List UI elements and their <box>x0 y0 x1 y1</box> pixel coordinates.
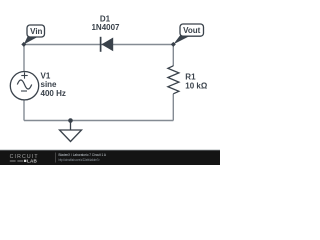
ground <box>60 121 82 142</box>
junction dot ground <box>68 118 73 123</box>
svg-text:1N4007: 1N4007 <box>91 23 120 32</box>
wire left vertical lower <box>23 100 25 120</box>
node Vin anchor <box>21 42 26 47</box>
wire top horizontal <box>24 44 173 46</box>
svg-text:Vout: Vout <box>183 26 201 35</box>
svg-text:10 kΩ: 10 kΩ <box>185 82 208 91</box>
resistor R1 <box>168 66 179 94</box>
svg-text:LAB: LAB <box>27 159 38 164</box>
wire right vertical lower <box>172 94 174 121</box>
wire bottom horizontal <box>24 120 173 122</box>
footer logo LAB row <box>10 159 38 164</box>
svg-text:http://circuitlab.com/c/22abt4: http://circuitlab.com/c/22abt4a/labr7v <box>59 157 100 162</box>
footer bar <box>0 150 220 165</box>
svg-text:sine: sine <box>41 80 58 89</box>
svg-text:Vin: Vin <box>30 27 42 36</box>
svg-text:R1: R1 <box>185 73 196 82</box>
svg-text:V1: V1 <box>41 71 51 80</box>
node Vout anchor <box>171 42 176 47</box>
voltage source V1 <box>10 72 38 100</box>
wire right vertical upper <box>172 45 174 67</box>
flag Vout <box>173 24 203 44</box>
diode D1 <box>101 37 114 52</box>
wire left vertical upper <box>23 45 25 72</box>
flag Vin <box>24 25 45 44</box>
svg-text:400 Hz: 400 Hz <box>41 89 66 98</box>
footer separator <box>55 153 57 163</box>
